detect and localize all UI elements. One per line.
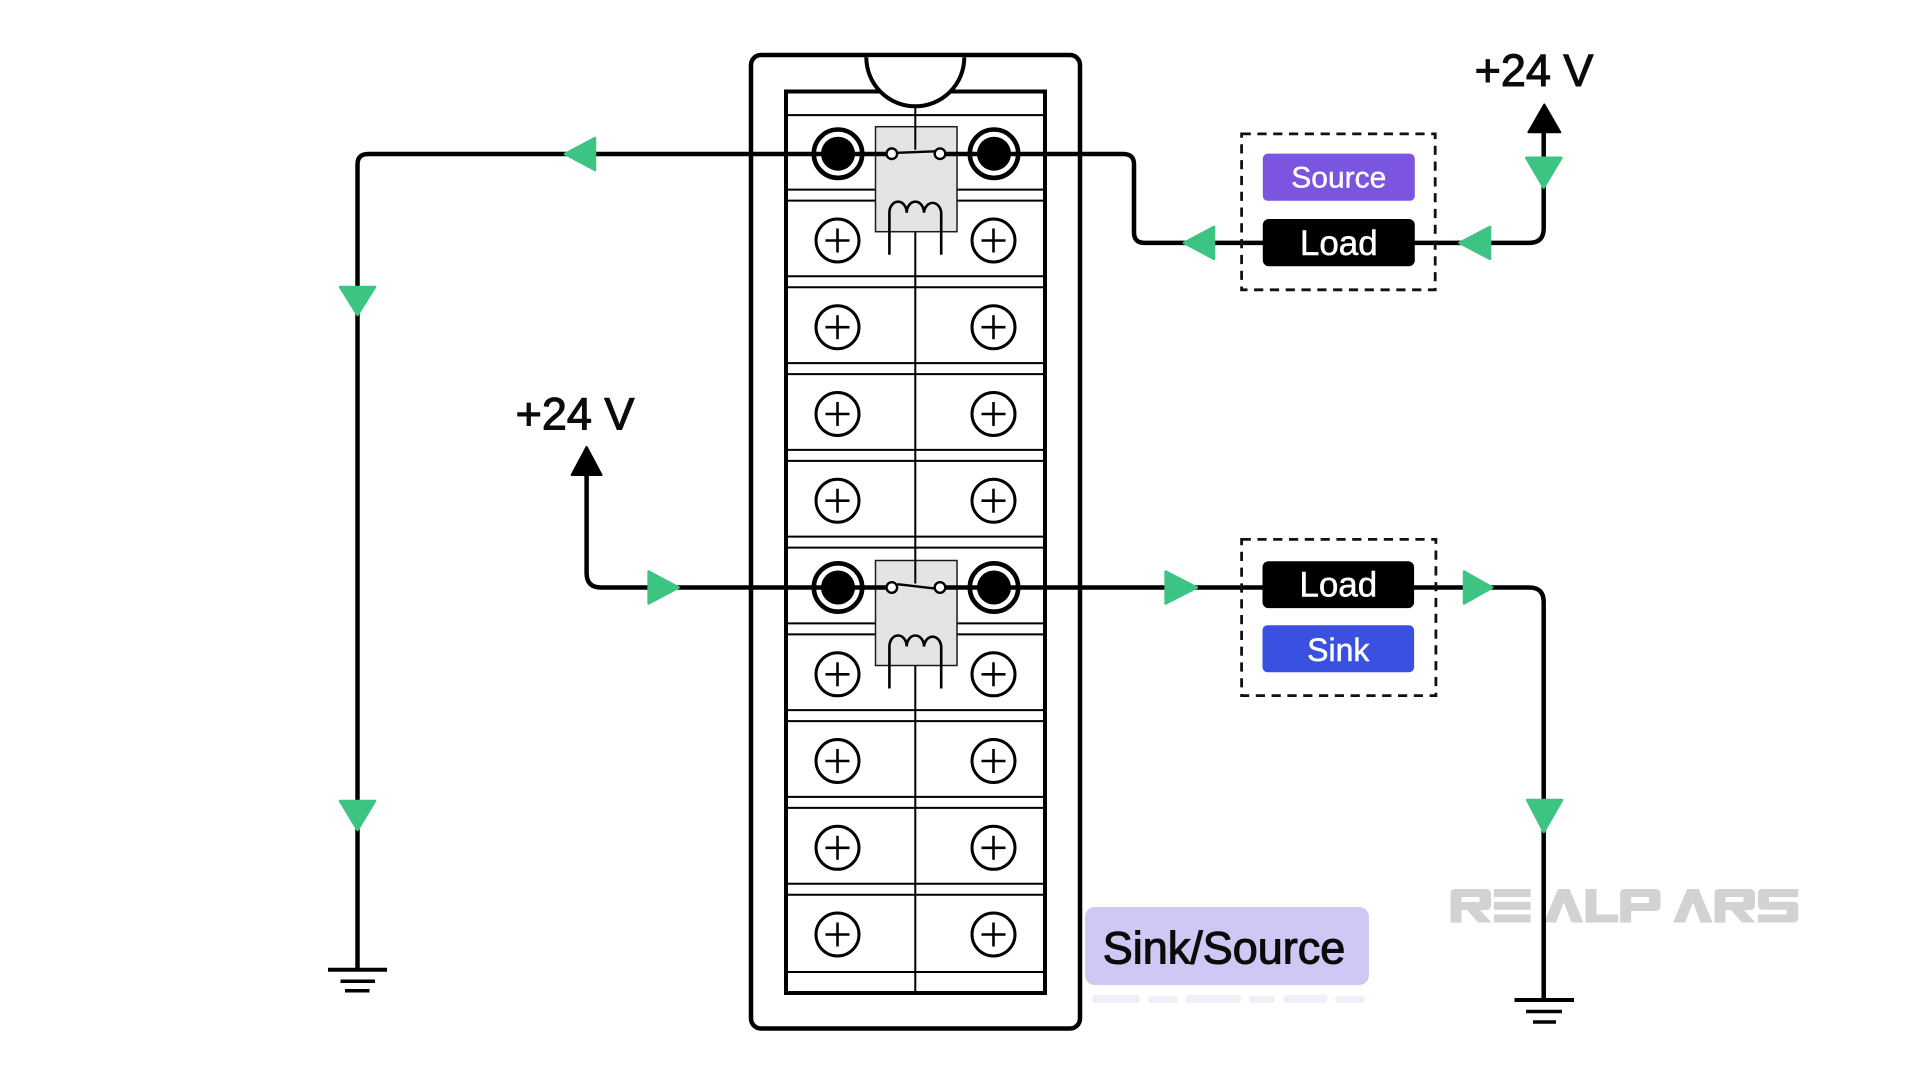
- row divider pair 9/10: [786, 883, 1045, 885]
- screw terminal row2 left: [816, 219, 859, 262]
- flow arrow down (left drop lower): [340, 801, 375, 830]
- wire: middle row to right ground via load: [940, 588, 1544, 1001]
- relay K2 coil: [889, 636, 941, 689]
- row divider pair 5/6: [786, 536, 1045, 538]
- flow arrow right (into load mid): [1166, 572, 1197, 604]
- screw terminal row9 left: [816, 826, 859, 869]
- screw terminal row7 right: [972, 653, 1015, 696]
- screw terminal row7 left: [816, 653, 859, 696]
- flow arrow right (middle feed): [649, 572, 679, 604]
- svg-text:Source: Source: [1291, 162, 1386, 195]
- wire: top row to left ground: [358, 154, 892, 970]
- screw terminal row4 left: [816, 393, 859, 436]
- center bus line: [914, 106, 916, 992]
- svg-text:Sink: Sink: [1307, 632, 1370, 668]
- relay K2 contact: [887, 582, 898, 593]
- Sink/Source caption: [1085, 907, 1369, 985]
- Load badge (middle): [1263, 561, 1415, 608]
- screw terminal row8 right: [972, 740, 1015, 783]
- input terminal right (wired): [970, 130, 1018, 178]
- screw terminal row5 left: [816, 479, 859, 522]
- flow arrow down (below +24V right): [1526, 158, 1561, 188]
- output terminal left (wired): [814, 563, 862, 611]
- supply arrow +24V (left): [572, 447, 602, 475]
- Sink badge: [1263, 625, 1415, 672]
- row divider pair 4/5: [786, 449, 1045, 451]
- screw terminal row9 right: [972, 826, 1015, 869]
- row divider pair 8/9: [786, 796, 1045, 798]
- caption ghost reflection: [1092, 995, 1365, 1003]
- screw terminal row5 right: [972, 479, 1015, 522]
- screw terminal row8 left: [816, 740, 859, 783]
- relay K2 body: [876, 561, 958, 666]
- RealPars watermark: [1451, 889, 1799, 923]
- row divider pair 6/7: [786, 622, 1045, 624]
- relay K1 contact: [887, 148, 898, 159]
- relay K1 feed stub: [914, 127, 916, 150]
- screw terminal row3 left: [816, 306, 859, 349]
- relay K1 body: [876, 127, 958, 232]
- flow arrow right (after load mid): [1464, 572, 1492, 604]
- row divider pair 3/4: [786, 362, 1045, 364]
- input terminal left (wired): [814, 130, 862, 178]
- output terminal right (wired): [970, 563, 1018, 611]
- svg-text:+24 V: +24 V: [1475, 45, 1594, 96]
- top strip divider: [786, 114, 1045, 116]
- bottom strip divider: [786, 971, 1045, 973]
- flow arrow left (top wire): [565, 138, 595, 170]
- wire: +24V to middle row: [587, 475, 892, 588]
- screw terminal row10 left: [816, 913, 859, 956]
- terminal block outer body: [751, 55, 1080, 1029]
- flow arrow down (left drop upper): [340, 287, 375, 315]
- row divider pair 2/3: [786, 275, 1045, 277]
- relay K1 coil: [889, 202, 941, 255]
- supply arrow +24V (right): [1528, 105, 1560, 133]
- flow arrow left (right of top load): [1459, 227, 1490, 259]
- svg-text:Sink/Source: Sink/Source: [1103, 923, 1346, 974]
- svg-text:Load: Load: [1300, 224, 1378, 263]
- svg-text:Load: Load: [1299, 566, 1377, 605]
- Load badge (top): [1263, 219, 1415, 266]
- row divider pair 7/8: [786, 709, 1045, 711]
- Source badge: [1263, 154, 1415, 201]
- screw terminal row3 right: [972, 306, 1015, 349]
- ground (left): [328, 970, 387, 991]
- row divider pair 1/2: [786, 189, 1045, 191]
- terminal block inner panel: [786, 92, 1045, 994]
- mounting notch (top semicircle): [866, 57, 964, 106]
- load enclosure (source side, dashed): [1242, 134, 1436, 290]
- screw terminal row4 right: [972, 393, 1015, 436]
- load enclosure (sink side, dashed): [1242, 539, 1436, 695]
- relay K2 feed stub: [914, 561, 916, 584]
- wire: source circuit (top row to +24V via load): [940, 132, 1544, 243]
- ground (right): [1515, 1000, 1575, 1022]
- screw terminal row2 right: [972, 219, 1015, 262]
- flow arrow down (right drop): [1527, 800, 1562, 832]
- screw terminal row10 right: [972, 913, 1015, 956]
- svg-text:+24 V: +24 V: [516, 389, 635, 440]
- flow arrow left (load feed top): [1184, 227, 1214, 259]
